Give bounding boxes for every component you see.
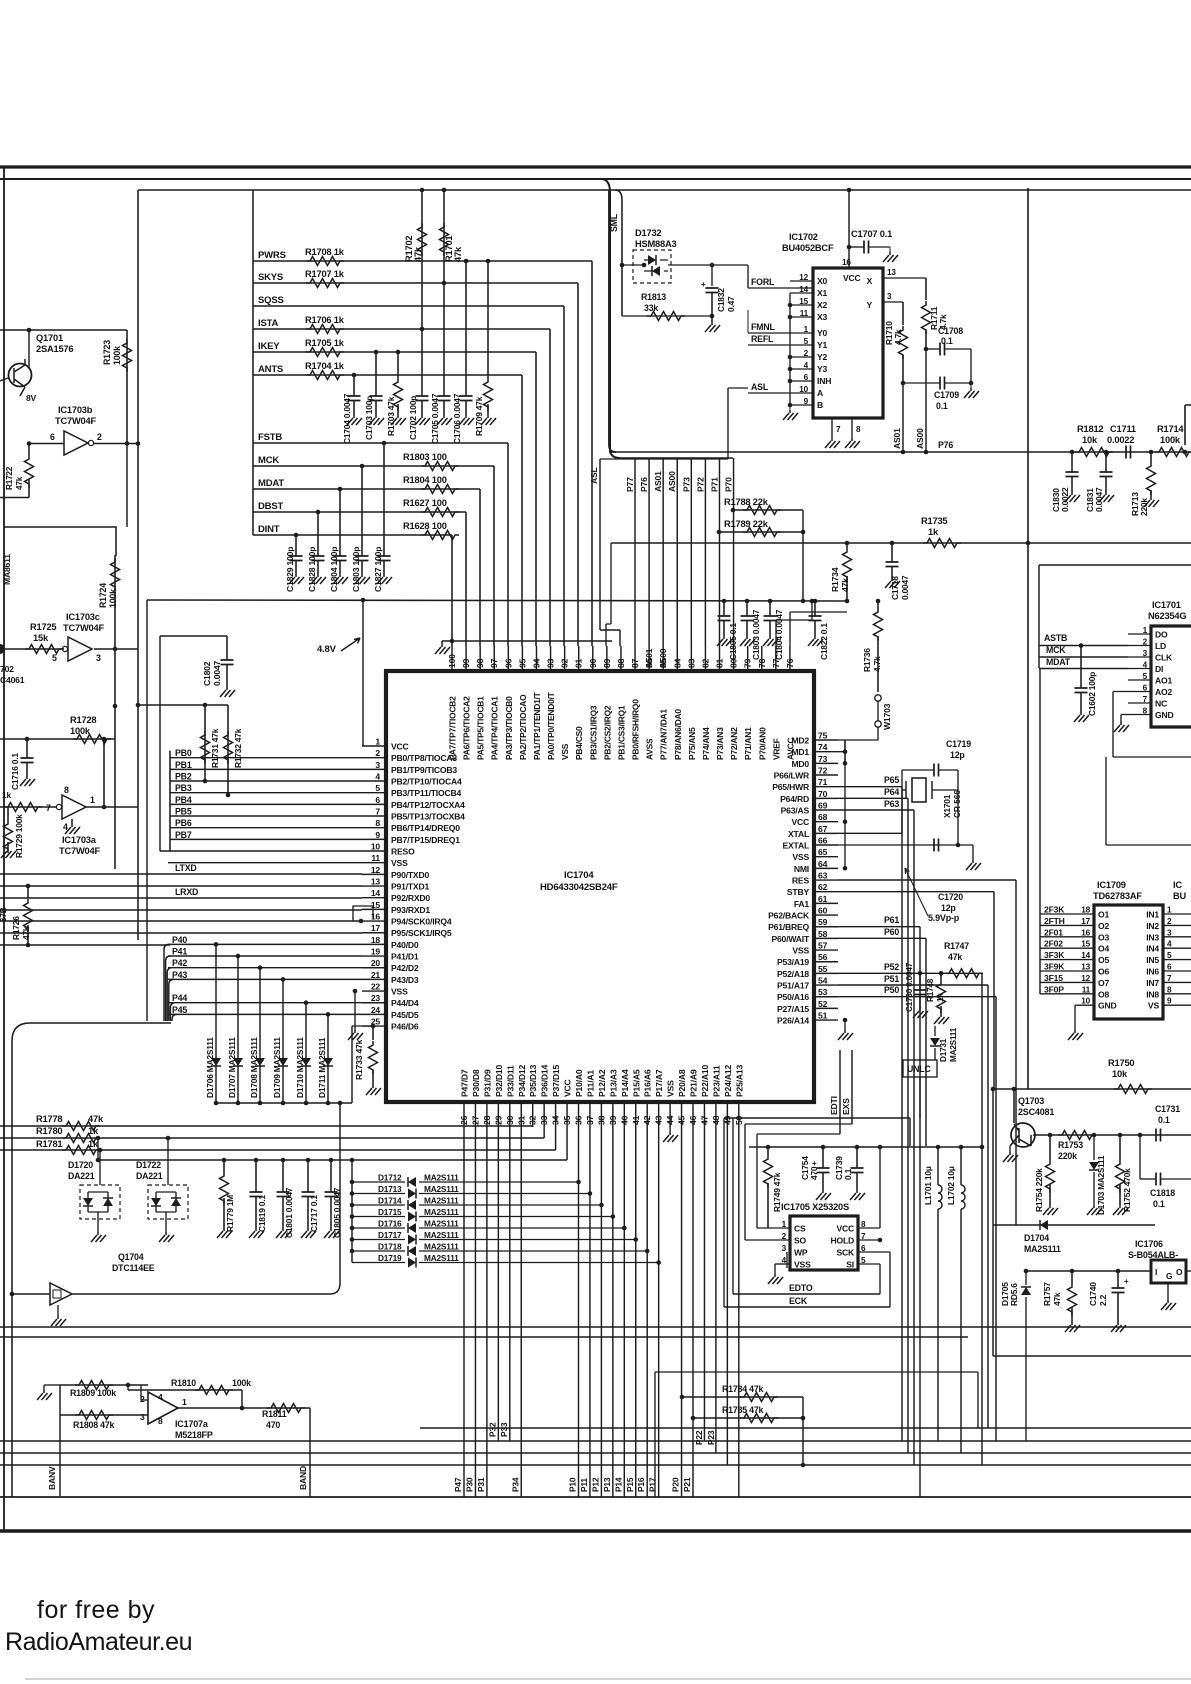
svg-text:VSS: VSS [794, 1260, 811, 1270]
svg-text:470: 470 [809, 1166, 819, 1180]
resistor R1722 47k vertical [28, 444, 30, 456]
wire Q1701 base top [0, 329, 127, 331]
svg-text:2F02: 2F02 [1044, 939, 1063, 949]
svg-text:98: 98 [475, 658, 485, 668]
wire x611 to pin89 [606, 543, 611, 646]
svg-text:FSTB: FSTB [258, 432, 282, 443]
svg-text:54: 54 [818, 976, 828, 986]
capacitor C1718 0.0047 [891, 543, 893, 562]
svg-text:MA2S111: MA2S111 [424, 1196, 459, 1206]
svg-text:O: O [1176, 1267, 1183, 1277]
svg-text:12p: 12p [950, 750, 965, 760]
wire top section left boundary [609, 190, 616, 452]
net label PB0-PB7 comb [169, 751, 171, 851]
svg-text:DO: DO [1155, 630, 1168, 640]
svg-text:52: 52 [818, 999, 828, 1009]
wire P64 net [838, 797, 908, 799]
svg-text:EDTO: EDTO [789, 1283, 813, 1293]
resistor R1701 47k vertical [443, 190, 445, 396]
wire top right section frame [1039, 564, 1191, 566]
svg-text:10k: 10k [1082, 435, 1098, 445]
svg-text:O4: O4 [1098, 944, 1109, 954]
svg-text:C1805 0.0047: C1805 0.0047 [332, 1187, 342, 1238]
resistor fragment 1k row [0, 806, 56, 808]
wire P65 net [838, 786, 902, 788]
svg-text:VSS: VSS [391, 987, 408, 997]
svg-text:4: 4 [1143, 661, 1148, 670]
svg-text:C1718: C1718 [890, 576, 900, 600]
svg-text:C1802: C1802 [202, 661, 212, 686]
crystal X1701 CR-566 circuit [838, 770, 934, 833]
svg-text:R1781: R1781 [36, 1139, 62, 1149]
svg-text:+: + [1124, 1277, 1129, 1286]
svg-text:47k: 47k [15, 476, 24, 490]
wire x104 link [103, 739, 105, 807]
svg-text:AVSS: AVSS [645, 738, 655, 760]
wire Q1703 collector row [1033, 1134, 1191, 1136]
svg-text:O7: O7 [1098, 978, 1109, 988]
svg-text:MA2S111: MA2S111 [424, 1207, 459, 1217]
svg-text:VSS: VSS [560, 743, 570, 760]
svg-text:R1729 100k: R1729 100k [14, 814, 24, 858]
net PWRS wire [253, 260, 592, 262]
svg-text:PB4: PB4 [175, 795, 192, 805]
svg-text:46: 46 [688, 1115, 698, 1125]
svg-text:P95/SCK1/IRQ5: P95/SCK1/IRQ5 [391, 928, 452, 938]
svg-text:D1714: D1714 [378, 1196, 402, 1206]
svg-text:6: 6 [1143, 684, 1148, 693]
svg-text:FORL: FORL [751, 277, 775, 287]
svg-text:2F01: 2F01 [1044, 927, 1063, 937]
wire aux route y1372 [655, 1371, 978, 1373]
svg-text:28: 28 [482, 1115, 492, 1125]
IC1705 VSS ground [774, 1264, 776, 1274]
resistor R1732 47k vertical [227, 705, 229, 795]
capacitor C1739 0.1 [855, 1145, 860, 1150]
svg-text:10: 10 [799, 385, 808, 394]
svg-text:0.1: 0.1 [843, 1168, 853, 1180]
capacitor C1804 [339, 489, 341, 556]
wire x115 link down [114, 706, 116, 869]
svg-text:IN3: IN3 [1146, 932, 1159, 942]
svg-text:P46/D6: P46/D6 [391, 1022, 419, 1032]
svg-text:P23/A11: P23/A11 [711, 1065, 721, 1097]
svg-text:0.1: 0.1 [941, 336, 953, 346]
capacitor C1704 0.0047 [353, 375, 355, 396]
svg-text:88: 88 [616, 658, 626, 668]
svg-text:C1730 0.0047: C1730 0.0047 [905, 962, 914, 1012]
svg-text:R1780: R1780 [36, 1126, 62, 1136]
page top border second line [0, 178, 1191, 180]
svg-text:Y3: Y3 [817, 364, 828, 374]
svg-text:11: 11 [1082, 985, 1091, 994]
svg-text:R1757: R1757 [1042, 1282, 1052, 1306]
svg-text:R1754 220k: R1754 220k [1034, 1168, 1044, 1212]
svg-text:GND: GND [1098, 1001, 1117, 1011]
svg-text:70: 70 [818, 789, 828, 799]
resistor R1723 100k vertical [126, 330, 128, 444]
net 3F9K [1040, 970, 1094, 972]
svg-text:C4061: C4061 [0, 675, 25, 685]
svg-text:CR-566: CR-566 [952, 790, 962, 818]
svg-text:6: 6 [375, 795, 380, 805]
svg-text:61: 61 [818, 894, 828, 904]
svg-text:3F15: 3F15 [1044, 973, 1063, 983]
resistor R1713 220k vertical [1149, 450, 1154, 455]
svg-text:P61/BREQ: P61/BREQ [768, 922, 809, 932]
transistor Q1702 fragment [0, 644, 5, 654]
svg-text:P33/D11: P33/D11 [505, 1065, 515, 1097]
capacitor C1716 0.1 [26, 739, 28, 758]
svg-text:99: 99 [461, 658, 471, 668]
svg-text:O5: O5 [1098, 955, 1109, 965]
svg-text:DI: DI [1155, 664, 1163, 674]
net SKYS wire [253, 282, 578, 284]
svg-text:C1711: C1711 [1110, 424, 1136, 434]
resistor R1704 [306, 371, 344, 380]
svg-text:33k: 33k [644, 303, 658, 313]
svg-text:75: 75 [818, 731, 828, 741]
wire pin16 jog [353, 906, 373, 921]
svg-text:3F0P: 3F0P [1044, 984, 1064, 994]
svg-text:63: 63 [818, 871, 828, 881]
signal comb vertical [252, 190, 254, 535]
svg-text:SO: SO [794, 1236, 807, 1246]
resistor R1707 [306, 279, 344, 288]
wire IC1701 lower frame [1106, 844, 1191, 846]
svg-text:RESO: RESO [391, 847, 415, 857]
svg-text:0.1: 0.1 [1153, 1199, 1165, 1209]
svg-text:R1810: R1810 [171, 1378, 196, 1388]
svg-text:PB4/TP12/TOCXA4: PB4/TP12/TOCXA4 [391, 800, 465, 810]
diode D1718 MA2S111 [352, 1250, 405, 1252]
svg-text:EXTAL: EXTAL [782, 841, 809, 851]
net DBST wire [253, 511, 466, 513]
svg-text:P60/WAIT: P60/WAIT [771, 934, 810, 944]
svg-text:2: 2 [375, 748, 380, 758]
svg-text:2: 2 [1167, 917, 1172, 926]
svg-text:2FTH: 2FTH [1044, 916, 1065, 926]
capacitor C1822 top [813, 599, 818, 604]
svg-text:DA221: DA221 [136, 1171, 163, 1181]
svg-text:P47/D7: P47/D7 [460, 1069, 470, 1097]
svg-text:D1707 MA2S111: D1707 MA2S111 [227, 1037, 237, 1098]
svg-text:D1712: D1712 [378, 1173, 402, 1183]
svg-text:IC1703b: IC1703b [58, 405, 93, 415]
svg-text:MA2S111: MA2S111 [424, 1219, 459, 1229]
svg-text:6: 6 [1167, 963, 1172, 972]
faint bottom edge line [25, 1678, 1191, 1680]
svg-text:AO2: AO2 [1155, 687, 1172, 697]
svg-text:35: 35 [562, 1115, 572, 1125]
svg-text:BANV: BANV [47, 1466, 57, 1490]
svg-text:TC7W04F: TC7W04F [59, 846, 100, 856]
svg-text:R1704 1k: R1704 1k [305, 361, 345, 371]
svg-text:R1808 47k: R1808 47k [73, 1420, 115, 1430]
svg-text:P15/A5: P15/A5 [631, 1069, 641, 1097]
svg-text:P93/RXD1: P93/RXD1 [391, 905, 430, 915]
svg-text:NMI: NMI [794, 864, 809, 874]
page left border [3, 167, 5, 1531]
svg-text:MA2S111: MA2S111 [1024, 1244, 1061, 1254]
svg-text:D1706 MA2S111: D1706 MA2S111 [205, 1037, 215, 1098]
svg-text:R1707 1k: R1707 1k [305, 269, 345, 279]
svg-text:64: 64 [818, 859, 828, 869]
svg-text:X1701: X1701 [942, 794, 952, 818]
svg-text:PB2/TP10/TIOCA4: PB2/TP10/TIOCA4 [391, 777, 462, 787]
svg-text:WP: WP [794, 1248, 808, 1258]
svg-text:DBST: DBST [258, 501, 283, 512]
svg-text:2F3K: 2F3K [1044, 905, 1065, 915]
svg-text:44: 44 [665, 1115, 675, 1125]
svg-text:C1801 0.0047: C1801 0.0047 [284, 1187, 294, 1238]
svg-text:51: 51 [818, 1011, 828, 1021]
svg-text:PA4/TP4/TIOCA1: PA4/TP4/TIOCA1 [490, 696, 500, 760]
svg-text:53: 53 [818, 987, 828, 997]
svg-text:NC: NC [1155, 699, 1167, 709]
resistor R1754 220k vertical [1049, 1135, 1051, 1160]
svg-text:2: 2 [804, 349, 809, 358]
svg-text:3F9K: 3F9K [1044, 962, 1065, 972]
inverter IC1703a TC7W04F [62, 795, 86, 819]
svg-text:P12/A2: P12/A2 [597, 1069, 607, 1097]
resistor R1734 47k vertical [846, 543, 848, 548]
svg-text:R1789 22k: R1789 22k [724, 519, 769, 529]
resistor R1705 [306, 348, 344, 357]
svg-text:Y: Y [866, 300, 872, 310]
svg-text:R1804 100: R1804 100 [403, 475, 447, 485]
IC1702 right pin X 13 [883, 277, 926, 279]
svg-text:GND: GND [1155, 710, 1174, 720]
wire address columns down to bus [463, 1127, 465, 1497]
resistor R1779 1M vertical [222, 1158, 227, 1163]
svg-text:220k: 220k [1058, 1151, 1077, 1161]
svg-text:R1752 470k: R1752 470k [1122, 1168, 1132, 1212]
wire IC1705 section frame [724, 1118, 910, 1146]
svg-text:81: 81 [715, 658, 725, 668]
svg-text:P35/D13: P35/D13 [528, 1065, 538, 1097]
svg-text:55: 55 [818, 964, 828, 974]
svg-text:4: 4 [804, 361, 809, 370]
svg-text:P11: P11 [579, 1478, 589, 1492]
svg-text:P43/D3: P43/D3 [391, 975, 419, 985]
svg-text:97: 97 [489, 658, 499, 668]
net AS01 vertical [902, 383, 904, 452]
svg-text:P45: P45 [172, 1005, 187, 1015]
svg-text:68: 68 [818, 812, 828, 822]
svg-text:17: 17 [1081, 917, 1090, 926]
wire MD1 MD0 stubs right [843, 749, 848, 754]
svg-text:P53/A19: P53/A19 [777, 957, 809, 967]
svg-text:SCK: SCK [836, 1248, 855, 1258]
svg-text:C1822 0.1: C1822 0.1 [819, 623, 829, 660]
svg-text:4: 4 [375, 772, 380, 782]
svg-text:12: 12 [1081, 974, 1090, 983]
IC1704 left pins 1-25 [362, 745, 386, 747]
diode D1714 MA2S111 [352, 1204, 405, 1206]
svg-text:P20: P20 [671, 1477, 681, 1492]
svg-text:0.0022: 0.0022 [1060, 487, 1070, 512]
svg-text:R1779 1M: R1779 1M [225, 1195, 235, 1232]
wire diode matrix collector [216, 1102, 352, 1104]
svg-text:57: 57 [818, 941, 828, 951]
svg-text:P60: P60 [884, 927, 899, 937]
svg-text:PB3/CS1/IRQ3: PB3/CS1/IRQ3 [588, 705, 598, 760]
svg-text:39: 39 [608, 1115, 618, 1125]
svg-text:INH: INH [817, 376, 831, 386]
svg-text:C1731: C1731 [1155, 1104, 1180, 1114]
svg-text:PB5: PB5 [175, 807, 192, 817]
svg-text:C1832: C1832 [716, 288, 726, 312]
wire cap row bus VCC [98, 1159, 567, 1161]
svg-text:C1707 0.1: C1707 0.1 [851, 229, 892, 239]
svg-text:12: 12 [371, 865, 381, 875]
svg-text:P17: P17 [648, 1477, 658, 1492]
svg-text:MA2S111: MA2S111 [424, 1173, 459, 1183]
svg-text:PB5/TP13/TOCXB4: PB5/TP13/TOCXB4 [391, 812, 465, 822]
svg-text:P16/A6: P16/A6 [643, 1069, 653, 1097]
svg-text:X0: X0 [817, 276, 828, 286]
capacitor C1831 0.0047 [1104, 450, 1109, 455]
svg-text:18: 18 [371, 935, 381, 945]
wire data columns bend to pull rows [532, 1126, 534, 1129]
jumper W1703 [875, 695, 881, 701]
svg-text:D1703 MA2S111: D1703 MA2S111 [1097, 1155, 1106, 1215]
svg-text:95: 95 [517, 658, 527, 668]
svg-text:R1811: R1811 [262, 1409, 287, 1419]
svg-text:C1818: C1818 [1150, 1188, 1175, 1198]
resistor R1702 47k vertical [421, 190, 423, 396]
svg-text:AO1: AO1 [1155, 676, 1172, 686]
svg-text:5: 5 [804, 337, 809, 346]
svg-text:BAND: BAND [298, 1466, 308, 1490]
wire P51 net [838, 984, 988, 986]
svg-text:1k: 1k [928, 527, 939, 537]
svg-text:87: 87 [630, 658, 640, 668]
svg-text:15: 15 [799, 297, 808, 306]
wire x1028 long vertical [1027, 188, 1029, 1089]
svg-text:DINT: DINT [258, 524, 280, 535]
svg-text:VSS: VSS [792, 946, 809, 956]
wire inverter b output [94, 443, 138, 445]
svg-text:36: 36 [574, 1115, 584, 1125]
svg-text:59: 59 [818, 917, 828, 927]
svg-text:PA6/TP6/TIOCA2: PA6/TP6/TIOCA2 [462, 696, 472, 760]
svg-text:R1723: R1723 [102, 340, 112, 365]
svg-text:3: 3 [1167, 928, 1172, 937]
svg-text:O1: O1 [1098, 910, 1109, 920]
svg-text:6: 6 [804, 373, 809, 382]
svg-text:19: 19 [371, 947, 381, 957]
net ECK [724, 1306, 890, 1308]
wire P76 row [609, 451, 1191, 453]
resistor R1731 47k vertical [204, 705, 206, 781]
svg-text:7: 7 [836, 425, 841, 434]
svg-text:C1803 0.0047: C1803 0.0047 [751, 609, 761, 660]
svg-text:O8: O8 [1098, 989, 1109, 999]
svg-text:R1628 100: R1628 100 [403, 521, 447, 531]
svg-text:0.47: 0.47 [726, 296, 736, 312]
wire left feeder verticals [164, 944, 169, 1021]
svg-text:3F3K: 3F3K [1044, 950, 1065, 960]
svg-text:73: 73 [818, 754, 828, 764]
svg-text:C1803 100p: C1803 100p [351, 547, 361, 592]
resistor R1784 47k [680, 1395, 685, 1400]
wire HOLD tie [858, 1239, 880, 1241]
svg-text:P62/BACK: P62/BACK [768, 911, 810, 921]
net ASL vertical to pin88 [600, 459, 620, 646]
svg-text:P75/AN5: P75/AN5 [687, 727, 697, 760]
svg-text:9: 9 [804, 397, 809, 406]
svg-text:0.1: 0.1 [936, 401, 948, 411]
svg-text:EDTI: EDTI [829, 1096, 839, 1115]
svg-text:XTAL: XTAL [788, 829, 809, 839]
svg-text:100k: 100k [112, 346, 122, 365]
svg-text:VCC: VCC [791, 817, 809, 827]
svg-text:38: 38 [596, 1115, 606, 1125]
svg-text:A500: A500 [658, 648, 668, 668]
svg-text:ASTB: ASTB [1044, 633, 1067, 643]
svg-text:HSM88A3: HSM88A3 [635, 239, 677, 249]
svg-text:P32/D10: P32/D10 [494, 1065, 504, 1097]
svg-text:65: 65 [818, 847, 828, 857]
svg-text:TC7W04F: TC7W04F [63, 623, 104, 633]
svg-text:P92/RXD0: P92/RXD0 [391, 893, 430, 903]
svg-text:14: 14 [799, 285, 808, 294]
svg-text:31: 31 [516, 1115, 526, 1125]
svg-text:MA2S111: MA2S111 [949, 1027, 958, 1062]
svg-text:13: 13 [1081, 963, 1090, 972]
svg-text:R1726: R1726 [11, 916, 21, 940]
svg-text:RES: RES [792, 876, 810, 886]
page bottom thick border [0, 1529, 1191, 1532]
svg-text:C1708: C1708 [938, 326, 963, 336]
svg-text:32: 32 [528, 1115, 538, 1125]
svg-text:3: 3 [375, 760, 380, 770]
svg-text:IC1701: IC1701 [1152, 600, 1181, 610]
net MCK wire [253, 465, 494, 467]
IC1709 GND pin [1075, 1004, 1094, 1006]
svg-text:10: 10 [371, 842, 381, 852]
wire AVCC riser [789, 612, 791, 646]
svg-text:5.9Vp-p: 5.9Vp-p [928, 913, 960, 923]
svg-text:23: 23 [371, 993, 381, 1003]
svg-text:48: 48 [711, 1115, 721, 1125]
svg-text:29: 29 [493, 1115, 503, 1125]
svg-text:LD: LD [1155, 641, 1166, 651]
svg-text:IC1705 X25320S: IC1705 X25320S [781, 1202, 849, 1212]
svg-text:P40/D0: P40/D0 [391, 940, 419, 950]
svg-text:PB1: PB1 [175, 760, 192, 770]
svg-text:N62354G: N62354G [1148, 611, 1186, 621]
svg-text:IC1706: IC1706 [1135, 1239, 1163, 1249]
svg-text:R1733 47k: R1733 47k [354, 1039, 364, 1080]
resistor R1789 22k [717, 530, 722, 535]
svg-text:PB2: PB2 [175, 772, 192, 782]
svg-text:MA2S111: MA2S111 [424, 1230, 459, 1240]
svg-text:220k: 220k [1139, 498, 1149, 516]
svg-text:REFL: REFL [751, 334, 774, 344]
svg-text:P72/AN2: P72/AN2 [729, 727, 739, 760]
svg-text:C1709: C1709 [934, 390, 959, 400]
net EDT1 EXS verticals [839, 1050, 841, 1134]
capacitor C1804 top [768, 599, 773, 604]
wire P60 net [838, 937, 926, 939]
svg-text:C1602 100p: C1602 100p [1087, 672, 1097, 716]
wire R1731/R1732 top bus [138, 704, 228, 706]
wire 2F feed vertical [1039, 669, 1041, 995]
svg-text:P41: P41 [172, 947, 187, 957]
